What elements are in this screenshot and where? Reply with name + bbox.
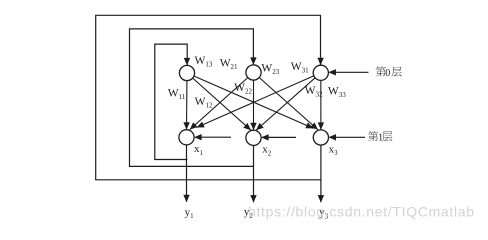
arrowhead feedback into neuron 2 <box>250 57 256 65</box>
arrowhead output y3 <box>318 195 324 203</box>
neuron circle x3 <box>313 130 328 145</box>
arrowhead w22 <box>250 123 256 131</box>
arrowhead lateral into x1 <box>194 134 202 140</box>
svg-text:https://blog.csdn.net/TIQCmatl: https://blog.csdn.net/TIQCmatlab <box>248 204 475 220</box>
annotation label layer1 第1层 <box>368 131 392 143</box>
output wire y2 <box>253 138 255 202</box>
connection wire w31 layer0 -> layer1 <box>197 73 321 128</box>
connection wire w22 layer0 -> layer1 <box>253 73 255 131</box>
connection wire w32 layer0 -> layer1 <box>256 73 321 131</box>
annotation wire layer1 <box>330 136 365 138</box>
connection wire w33 layer0 -> layer1 <box>320 73 322 130</box>
lateral wire into x1 <box>195 136 231 138</box>
neuron circle top 3 <box>313 65 328 80</box>
lateral wire into x2 <box>262 136 296 138</box>
arrowhead feedback into neuron 1 <box>184 58 190 66</box>
arrowhead w31 <box>197 122 205 128</box>
arrowhead w11 <box>183 122 189 130</box>
connection wire w13 layer0 -> layer1 <box>187 73 314 128</box>
arrowhead output y2 <box>250 195 256 203</box>
connection wire w21 layer0 -> layer1 <box>190 73 254 130</box>
arrowhead annotation layer1 <box>329 134 337 140</box>
arrowhead feedback into neuron 3 <box>317 58 323 65</box>
arrowhead output y1 <box>183 195 189 203</box>
svg-text:1: 1 <box>378 132 383 143</box>
arrowhead annotation layer0 <box>328 69 336 75</box>
output wire y3 <box>320 138 322 203</box>
arrowhead w12 <box>243 123 251 130</box>
feedback loop wire from x3 output to neuron 3 input <box>96 15 321 180</box>
arrowhead w13 <box>305 123 313 129</box>
neuron circle x2 <box>246 130 261 145</box>
arrowhead w32 <box>256 123 264 130</box>
feedback loop wire from x1 output to neuron 1 input <box>155 44 188 159</box>
arrowhead lateral into x2 <box>261 134 269 140</box>
neuron circle top 1 <box>179 65 194 80</box>
feedback loop wire from x2 output to neuron 2 input <box>130 29 254 167</box>
svg-text:0: 0 <box>385 68 390 79</box>
arrowhead w23 <box>310 122 318 129</box>
output wire y1 <box>186 137 188 202</box>
annotation wire layer0 <box>330 71 369 73</box>
neuron circle top 2 <box>246 65 261 80</box>
arrowhead w33 <box>318 122 324 129</box>
neuron circle x1 <box>179 130 194 145</box>
connection wire w23 layer0 -> layer1 <box>254 73 319 130</box>
annotation label layer0 第0层 <box>376 66 402 78</box>
arrowhead w21 <box>190 122 198 129</box>
connection wire w11 layer0 -> layer1 <box>186 73 189 130</box>
connection wire w12 layer0 -> layer1 <box>187 73 251 130</box>
